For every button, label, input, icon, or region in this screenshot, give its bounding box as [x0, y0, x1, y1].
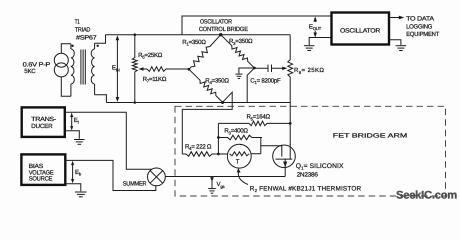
svg-text:R7=11KΩ: R7=11KΩ — [143, 76, 167, 84]
svg-text:R8= 25KΩ: R8= 25KΩ — [294, 67, 324, 75]
wire: oscillator lower-right to ground — [389, 40, 401, 45]
svg-text:SOURCE: SOURCE — [29, 176, 53, 183]
wire: top feed y=16 to oscillator, step at x=182 — [182, 16, 332, 35]
node E_b bracket — [65, 160, 156, 190]
wire: R8 line down into box (drain feed) — [289, 103, 291, 146]
svg-text:CONTROL BRIDGE: CONTROL BRIDGE — [199, 26, 248, 33]
svg-text:Q1= SILICONIX: Q1= SILICONIX — [296, 163, 344, 171]
svg-text:T1: T1 — [75, 19, 80, 26]
svg-text:T: T — [236, 159, 240, 166]
wire: right node drop to rail — [247, 68, 254, 103]
wire: gate line to FET — [261, 146, 282, 157]
node E_t bracket — [65, 112, 152, 169]
svg-text:Vgs: Vgs — [217, 181, 225, 189]
svg-text:#SP67: #SP67 — [76, 34, 97, 41]
op-amp OSCILLATOR box — [332, 13, 390, 45]
thermistor R2 — [227, 144, 251, 168]
wire: gate-side vertical x=218.4 — [217, 123, 219, 154]
transformer T1 TRIAD #SP67 — [71, 35, 107, 103]
svg-text:R4=350Ω: R4=350Ω — [205, 77, 229, 85]
ground at bridge right node — [235, 68, 254, 79]
bias voltage source box — [21, 154, 65, 185]
resistor R5 164 — [218, 121, 290, 126]
svg-text:OSCILLATOR: OSCILLATOR — [340, 27, 381, 34]
svg-text:OSCILLATOR: OSCILLATOR — [200, 19, 233, 26]
svg-text:Et: Et — [74, 117, 80, 125]
resistor R1 350 (bridge top-left arm) — [189, 35, 221, 70]
svg-text:SeekIC.com: SeekIC.com — [396, 189, 457, 201]
svg-text:LOGGING: LOGGING — [406, 24, 433, 31]
AC source 0.6V P-P 5KC — [54, 44, 71, 97]
svg-text:EQUIPMENT: EQUIPMENT — [406, 31, 440, 38]
resistor R6 25K pot — [132, 35, 137, 103]
resistor R3 400 — [218, 135, 262, 140]
wire: oscillator output arrow — [389, 17, 401, 19]
node bridge bottom vertex — [221, 101, 224, 104]
resistor R8 25K pot — [288, 35, 293, 102]
svg-text:R6=25KΩ: R6=25KΩ — [138, 52, 163, 60]
wire: vertex stub into FET box, to R4 222 — [182, 92, 232, 154]
transducer box — [22, 107, 65, 136]
svg-text:R4= 222 Ω: R4= 222 Ω — [185, 143, 212, 151]
resistor R7 11K — [147, 67, 189, 72]
node E_IN measurement arrows — [116, 38, 118, 99]
wire: top rail y=34.7 — [106, 34, 291, 36]
resistor R4 222 — [182, 152, 218, 157]
svg-text:TRIAD: TRIAD — [75, 26, 91, 33]
svg-text:EIN: EIN — [112, 65, 120, 73]
svg-text:R3=400Ω: R3=400Ω — [224, 128, 248, 136]
svg-text:R2 FENWAL #KB21J1 THERMISTOR: R2 FENWAL #KB21J1 THERMISTOR — [250, 185, 362, 193]
transistor Q1 FET 2N2386 — [273, 145, 296, 168]
node bridge right — [253, 67, 256, 70]
resistor R4 350 (bridge bottom-left arm) — [189, 69, 223, 102]
wire: oscillator lower-left to ground — [309, 38, 331, 46]
wire: R3 right end drop — [260, 138, 262, 154]
node bridge apex — [219, 33, 222, 36]
resistor R3 350 (bridge top-right arm) — [221, 35, 255, 68]
svg-text:TRANS-: TRANS- — [31, 116, 56, 123]
node Vgs tap with ground — [211, 177, 213, 189]
svg-text:Eb: Eb — [75, 169, 82, 177]
thermistor callout arrow — [238, 171, 248, 185]
ground (oscillator right) — [396, 46, 407, 51]
R6 wiper arrow — [138, 67, 143, 71]
svg-text:5KC: 5KC — [24, 68, 36, 75]
wire: bottom rail y=102.5 — [106, 102, 290, 104]
svg-text:R3=350Ω: R3=350Ω — [229, 38, 253, 46]
summer — [148, 168, 166, 186]
svg-text:R1=350Ω: R1=350Ω — [182, 39, 206, 47]
FET bridge arm dashed box — [175, 106, 446, 196]
svg-text:EOUT: EOUT — [309, 23, 322, 31]
ground (oscillator left) — [304, 46, 315, 51]
ground (bias) — [75, 192, 87, 197]
svg-text:SUMMER: SUMMER — [123, 181, 147, 188]
svg-text:TO DATA: TO DATA — [406, 16, 435, 23]
svg-text:R5=164Ω: R5=164Ω — [247, 114, 271, 122]
svg-text:DUCER: DUCER — [31, 123, 53, 130]
svg-text:C1= 8200pF: C1= 8200pF — [250, 77, 281, 85]
node E_OUT arrows — [314, 19, 316, 35]
svg-text:2N2386: 2N2386 — [297, 172, 319, 179]
node bridge left — [188, 68, 191, 71]
capacitor C1 8200pF — [254, 65, 283, 72]
svg-text:FET BRIDGE ARM: FET BRIDGE ARM — [333, 132, 407, 139]
ground (transducer) — [74, 140, 85, 145]
wire: summer output to FET source — [165, 176, 285, 178]
